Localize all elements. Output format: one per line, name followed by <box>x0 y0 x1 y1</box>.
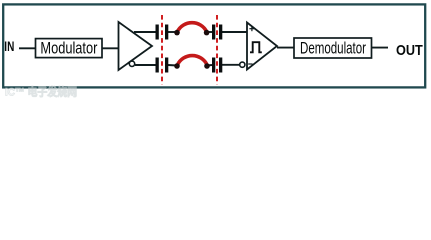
svg-text:Modulator: Modulator <box>40 40 97 58</box>
svg-text:IN: IN <box>4 38 14 54</box>
svg-text:IC™ 电子发烧网: IC™ 电子发烧网 <box>5 85 77 99</box>
svg-text:Demodulator: Demodulator <box>300 40 366 58</box>
svg-text:OUT: OUT <box>396 43 423 59</box>
